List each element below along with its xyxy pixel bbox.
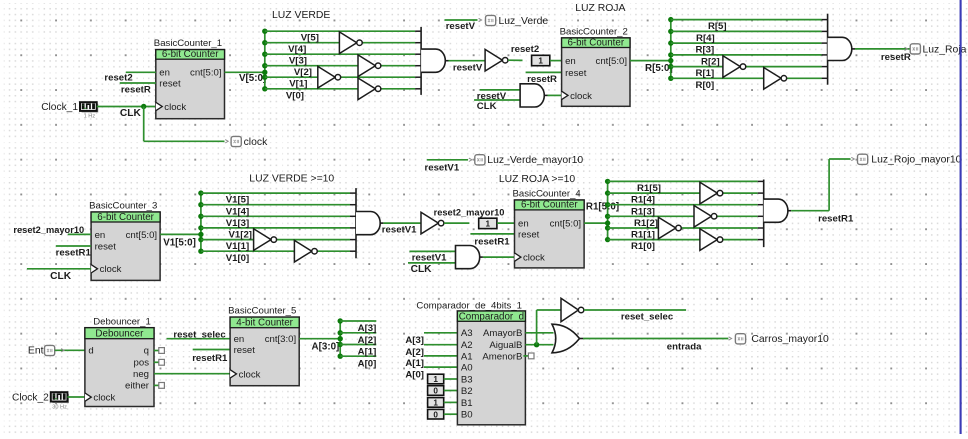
svg-text:resetR1: resetR1 xyxy=(56,248,92,259)
svg-text:A[2]: A[2] xyxy=(358,335,377,346)
svg-text:Luz_Verde: Luz_Verde xyxy=(499,16,549,27)
svg-text:reset2: reset2 xyxy=(511,44,539,55)
svg-text:resetR: resetR xyxy=(121,85,151,96)
svg-text:clock: clock xyxy=(93,393,115,404)
svg-text:A3: A3 xyxy=(461,328,473,339)
svg-text:6-bit Counter: 6-bit Counter xyxy=(97,212,154,223)
svg-text:R[3]: R[3] xyxy=(696,45,715,56)
svg-text:reset: reset xyxy=(234,345,256,356)
svg-text:cnt[3:0]: cnt[3:0] xyxy=(265,334,296,345)
svg-text:resetR: resetR xyxy=(881,52,911,63)
svg-text:A[0]: A[0] xyxy=(405,369,424,380)
svg-text:0: 0 xyxy=(433,410,438,419)
svg-text:V[5]: V[5] xyxy=(301,33,319,44)
svg-text:R1[5:0]: R1[5:0] xyxy=(586,201,619,212)
svg-text:30 Hz: 30 Hz xyxy=(52,404,67,410)
svg-text:V1[1]: V1[1] xyxy=(226,241,249,252)
svg-text:V1[2]: V1[2] xyxy=(229,230,252,241)
svg-text:en: en xyxy=(159,68,170,79)
svg-text:V[2]: V[2] xyxy=(294,67,312,78)
svg-text:BasicCounter_1: BasicCounter_1 xyxy=(154,38,222,49)
svg-text:A[1]: A[1] xyxy=(358,347,377,358)
svg-text:1: 1 xyxy=(538,57,543,66)
svg-text:BasicCounter_4: BasicCounter_4 xyxy=(513,188,582,199)
svg-text:cnt[5:0]: cnt[5:0] xyxy=(126,230,157,241)
svg-text:CLK: CLK xyxy=(477,101,497,112)
svg-text:CLK: CLK xyxy=(411,264,433,275)
svg-text:R1[2]: R1[2] xyxy=(634,218,658,229)
svg-text:resetV: resetV xyxy=(446,21,476,32)
svg-text:BasicCounter_5: BasicCounter_5 xyxy=(228,306,296,317)
svg-text:A1: A1 xyxy=(461,351,473,362)
svg-text:reset_selec: reset_selec xyxy=(173,330,226,341)
svg-text:Ent: Ent xyxy=(28,346,44,357)
svg-text:V[5:0]: V[5:0] xyxy=(239,73,266,84)
svg-text:0: 0 xyxy=(433,387,438,396)
svg-text:A[2]: A[2] xyxy=(405,347,424,358)
svg-text:Debouncer_1: Debouncer_1 xyxy=(93,316,151,327)
svg-text:A[0]: A[0] xyxy=(358,358,377,369)
svg-text:CLK: CLK xyxy=(120,108,142,119)
svg-text:reset: reset xyxy=(159,78,181,89)
svg-text:resetV1: resetV1 xyxy=(425,163,460,174)
svg-text:LUZ ROJA: LUZ ROJA xyxy=(575,3,625,14)
svg-text:pos: pos xyxy=(134,358,150,369)
svg-text:R[1]: R[1] xyxy=(696,68,715,79)
svg-text:R1[1]: R1[1] xyxy=(631,230,655,241)
svg-text:R1[0]: R1[0] xyxy=(631,241,655,252)
svg-text:BasicCounter_2: BasicCounter_2 xyxy=(560,26,628,37)
svg-text:AmenorB: AmenorB xyxy=(482,351,522,362)
svg-text:A2: A2 xyxy=(461,340,473,351)
svg-text:R1[5]: R1[5] xyxy=(637,183,661,194)
svg-text:Carros_mayor10: Carros_mayor10 xyxy=(751,334,829,345)
svg-text:Clock_1: Clock_1 xyxy=(41,102,78,113)
svg-text:4-bit Counter: 4-bit Counter xyxy=(236,318,293,329)
svg-text:clock: clock xyxy=(523,253,545,264)
svg-text:clock: clock xyxy=(239,369,261,380)
svg-text:en: en xyxy=(234,334,245,345)
svg-text:clock: clock xyxy=(164,102,186,113)
svg-text:6-bit Counter: 6-bit Counter xyxy=(567,37,624,48)
svg-text:R[5:0]: R[5:0] xyxy=(645,63,673,74)
svg-text:B3: B3 xyxy=(461,374,473,385)
svg-text:LUZ VERDE: LUZ VERDE xyxy=(272,10,330,21)
svg-text:V[4]: V[4] xyxy=(288,44,306,55)
svg-text:en: en xyxy=(518,219,529,230)
svg-text:resetR1: resetR1 xyxy=(818,213,854,224)
svg-text:resetV: resetV xyxy=(453,62,483,73)
svg-text:V1[0]: V1[0] xyxy=(226,253,249,264)
svg-text:V1[4]: V1[4] xyxy=(226,206,249,217)
svg-text:Comparador_d: Comparador_d xyxy=(459,311,524,322)
svg-text:neg: neg xyxy=(133,369,149,380)
svg-text:Luz_Rojo_mayor10: Luz_Rojo_mayor10 xyxy=(871,155,961,166)
svg-text:resetV1: resetV1 xyxy=(412,252,447,263)
svg-text:reset2_mayor10: reset2_mayor10 xyxy=(434,208,505,218)
svg-text:resetR1: resetR1 xyxy=(474,236,510,247)
svg-text:d: d xyxy=(88,346,93,357)
svg-text:A[3]: A[3] xyxy=(358,323,377,334)
svg-text:resetR: resetR xyxy=(527,74,557,85)
svg-text:R[4]: R[4] xyxy=(696,33,715,44)
svg-text:q: q xyxy=(144,346,149,357)
svg-text:6-bit Counter: 6-bit Counter xyxy=(521,200,578,211)
svg-text:B2: B2 xyxy=(461,386,473,397)
svg-text:A[3:0]: A[3:0] xyxy=(312,342,340,353)
svg-text:1: 1 xyxy=(433,399,438,408)
svg-text:R1[4]: R1[4] xyxy=(631,195,655,206)
svg-text:Luz_Verde_mayor10: Luz_Verde_mayor10 xyxy=(487,155,583,166)
svg-text:Clock_2: Clock_2 xyxy=(12,393,49,404)
svg-text:clock: clock xyxy=(100,264,122,275)
svg-text:B1: B1 xyxy=(461,398,473,409)
svg-text:cnt[5:0]: cnt[5:0] xyxy=(596,56,627,67)
svg-text:reset2: reset2 xyxy=(104,73,132,84)
svg-text:Debouncer: Debouncer xyxy=(95,329,144,340)
svg-text:en: en xyxy=(565,56,576,67)
svg-text:AigualB: AigualB xyxy=(489,340,522,351)
svg-text:entrada: entrada xyxy=(667,341,702,352)
svg-text:LUZ VERDE >=10: LUZ VERDE >=10 xyxy=(249,174,334,185)
svg-text:reset: reset xyxy=(518,229,540,240)
svg-text:R[0]: R[0] xyxy=(696,80,715,91)
svg-text:1: 1 xyxy=(433,375,438,384)
svg-text:LUZ ROJA >=10: LUZ ROJA >=10 xyxy=(499,174,575,185)
svg-text:CLK: CLK xyxy=(50,271,72,282)
svg-text:V[1]: V[1] xyxy=(289,79,307,90)
svg-text:B0: B0 xyxy=(461,410,473,421)
svg-text:cnt[5:0]: cnt[5:0] xyxy=(190,68,221,79)
svg-text:R1[3]: R1[3] xyxy=(631,206,655,217)
svg-text:A0: A0 xyxy=(461,363,473,374)
svg-text:reset: reset xyxy=(565,68,587,79)
svg-text:clock: clock xyxy=(244,137,268,148)
svg-text:V[0]: V[0] xyxy=(286,90,304,101)
svg-text:resetR1: resetR1 xyxy=(192,353,228,364)
svg-text:either: either xyxy=(125,381,150,392)
svg-text:V[3]: V[3] xyxy=(289,56,307,67)
svg-text:reset_selec: reset_selec xyxy=(621,311,674,322)
svg-text:R[5]: R[5] xyxy=(708,21,727,32)
svg-text:clock: clock xyxy=(570,91,592,102)
svg-text:cnt[5:0]: cnt[5:0] xyxy=(550,219,581,230)
svg-text:1: 1 xyxy=(486,220,491,229)
svg-text:R[2]: R[2] xyxy=(701,57,720,68)
svg-text:reset2_mayor10: reset2_mayor10 xyxy=(13,225,84,235)
svg-text:resetV1: resetV1 xyxy=(382,225,417,236)
svg-text:V1[5]: V1[5] xyxy=(226,195,249,206)
svg-text:V1[3]: V1[3] xyxy=(226,218,249,229)
svg-text:BasicCounter_3: BasicCounter_3 xyxy=(89,200,157,211)
svg-text:A[3]: A[3] xyxy=(405,335,424,346)
svg-text:1 Hz: 1 Hz xyxy=(84,114,96,120)
svg-text:reset: reset xyxy=(95,241,117,252)
svg-text:6-bit Counter: 6-bit Counter xyxy=(162,49,219,60)
svg-text:Comparador_de_4bits_1: Comparador_de_4bits_1 xyxy=(416,301,522,312)
svg-text:V1[5:0]: V1[5:0] xyxy=(163,237,196,248)
svg-text:A[1]: A[1] xyxy=(405,358,424,369)
svg-text:en: en xyxy=(95,230,106,241)
svg-text:AmayorB: AmayorB xyxy=(483,328,522,339)
